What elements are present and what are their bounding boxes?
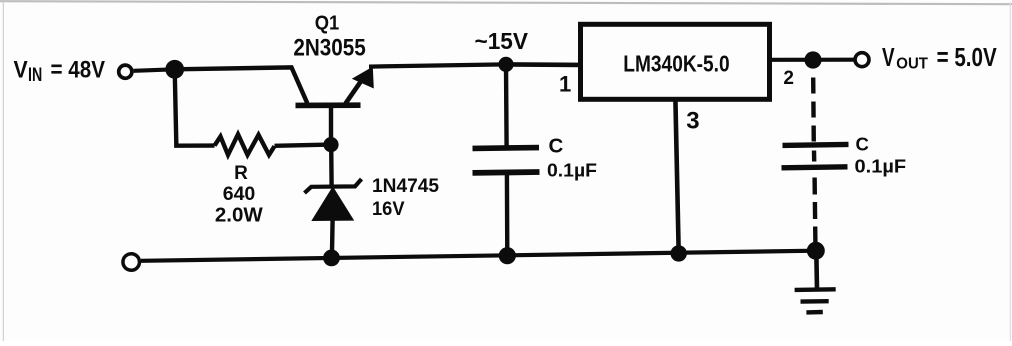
wire VIN branch down	[175, 69, 215, 145]
regulator U1 LM340K-5.0 box	[581, 24, 770, 99]
svg-text:1: 1	[559, 72, 571, 97]
wire input stub	[134, 69, 175, 71]
transistor Q1	[296, 67, 374, 145]
wire dashed pin2 down to output cap	[811, 78, 816, 145]
svg-text:C: C	[549, 134, 564, 157]
svg-text:1N4745: 1N4745	[372, 176, 439, 197]
node D output junction dot	[804, 51, 821, 68]
svg-text:3: 3	[686, 108, 699, 135]
svg-text:VIN= 48V: VIN= 48V	[14, 57, 106, 86]
wire emitter to node 15V	[369, 64, 506, 66]
svg-text:R: R	[234, 163, 248, 184]
svg-text:0.1µF: 0.1µF	[547, 161, 597, 181]
node G output rail dot	[807, 242, 825, 260]
capacitor C output	[782, 144, 849, 167]
node pin3 rail dot	[671, 245, 687, 261]
zener diode D1 1N4745	[305, 179, 362, 258]
wire top to collector	[175, 67, 308, 103]
ground symbol	[795, 251, 836, 313]
node ground-left terminal	[123, 254, 140, 271]
svg-text:C: C	[856, 134, 869, 155]
wire ground rail	[141, 251, 816, 261]
svg-text:640: 640	[223, 183, 256, 205]
wire 15V to regulator pin 1	[506, 62, 580, 67]
svg-text:0.1µF: 0.1µF	[855, 156, 907, 176]
wire regulator pin 3 down	[675, 99, 678, 253]
svg-text:2.0W: 2.0W	[215, 204, 263, 227]
svg-text:Q1: Q1	[315, 13, 340, 35]
resistor R	[215, 134, 275, 155]
capacitor C input	[473, 64, 540, 255]
wire dashed output cap to ground rail	[812, 178, 817, 251]
node VOUT output terminal	[855, 53, 869, 67]
node E zener rail dot	[323, 250, 340, 267]
node C 15V junction dot	[498, 57, 513, 72]
wire node B to zener	[329, 145, 334, 186]
svg-text:16V: 16V	[372, 199, 405, 220]
node A junction dot	[165, 60, 184, 79]
wire pin 2 to output	[770, 58, 854, 62]
svg-text:2N3055: 2N3055	[293, 35, 365, 62]
node VIN input terminal	[119, 65, 132, 78]
svg-text:LM340K-5.0: LM340K-5.0	[623, 50, 729, 76]
svg-text:2: 2	[783, 68, 794, 89]
node F cap rail dot	[499, 247, 516, 264]
node B base junction dot	[323, 137, 338, 152]
svg-text:~15V: ~15V	[475, 28, 529, 54]
wire resistor to node B	[275, 145, 326, 146]
